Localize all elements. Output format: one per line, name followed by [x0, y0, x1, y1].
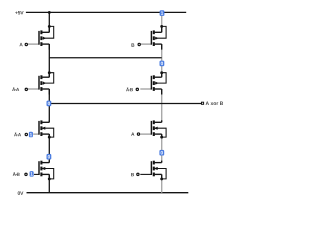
transistor Q4 PMOS gate B-bar [140, 71, 166, 94]
wire: +5V top rail [26, 11, 186, 13]
wire: middle horizontal net [49, 57, 161, 59]
node state between Q6 and Q8 [159, 150, 164, 156]
wire: left column vertical net segments [48, 12, 50, 192]
transistor Q7 NMOS gate B-bar [34, 161, 54, 181]
wire: right column vertical net segments [161, 12, 163, 192]
node state 1 on +5V rail right [160, 10, 165, 16]
label B at Q8 [131, 173, 134, 176]
terminal: output A xor B [202, 102, 204, 104]
transistor Q5 NMOS gate A-bar [33, 120, 54, 138]
wire: output line A xor B [49, 103, 201, 105]
label A xor B [206, 102, 223, 105]
label A at Q1 [19, 43, 22, 46]
terminal input A (Q1 gate) [25, 43, 27, 45]
terminal input A (Q6 gate) [137, 133, 139, 135]
node state 0 between Q3 and Q4 [160, 61, 165, 67]
terminal input A-bar (Q5 gate) [25, 133, 27, 135]
terminal input B (Q3 gate) [138, 43, 140, 45]
label A-bar-A at Q2 [12, 87, 19, 91]
label 0V [18, 191, 24, 195]
terminal input B-bar (Q7 gate) [25, 173, 27, 175]
transistor Q3 PMOS gate B [140, 25, 166, 50]
terminal input B-bar (Q4 gate) [136, 88, 138, 90]
node state 1 at Q7 gate [30, 171, 34, 177]
transistor Q2 PMOS gate A-bar [28, 71, 54, 94]
label +5V [15, 11, 23, 14]
junction dot on +5V rail at left column [48, 11, 51, 14]
label B at Q3 [131, 43, 134, 46]
label A-bar-B at Q4 [126, 87, 133, 91]
transistor Q8 NMOS gate B [140, 161, 166, 181]
transistor Q6 NMOS gate A [140, 120, 166, 138]
wire: 0V bottom rail [27, 192, 189, 194]
label A-bar-A at Q5 [14, 132, 21, 136]
node state between Q5 and Q7 [47, 154, 52, 160]
terminal input B (Q8 gate) [137, 173, 139, 175]
transistor Q1 PMOS gate A [28, 25, 54, 50]
label A-bar-B at Q7 [13, 172, 20, 176]
label A at Q6 [131, 132, 134, 135]
node state 1 at Q5 gate [29, 132, 33, 138]
node state on output net [47, 101, 52, 107]
terminal input A-bar (Q2 gate) [25, 88, 27, 90]
